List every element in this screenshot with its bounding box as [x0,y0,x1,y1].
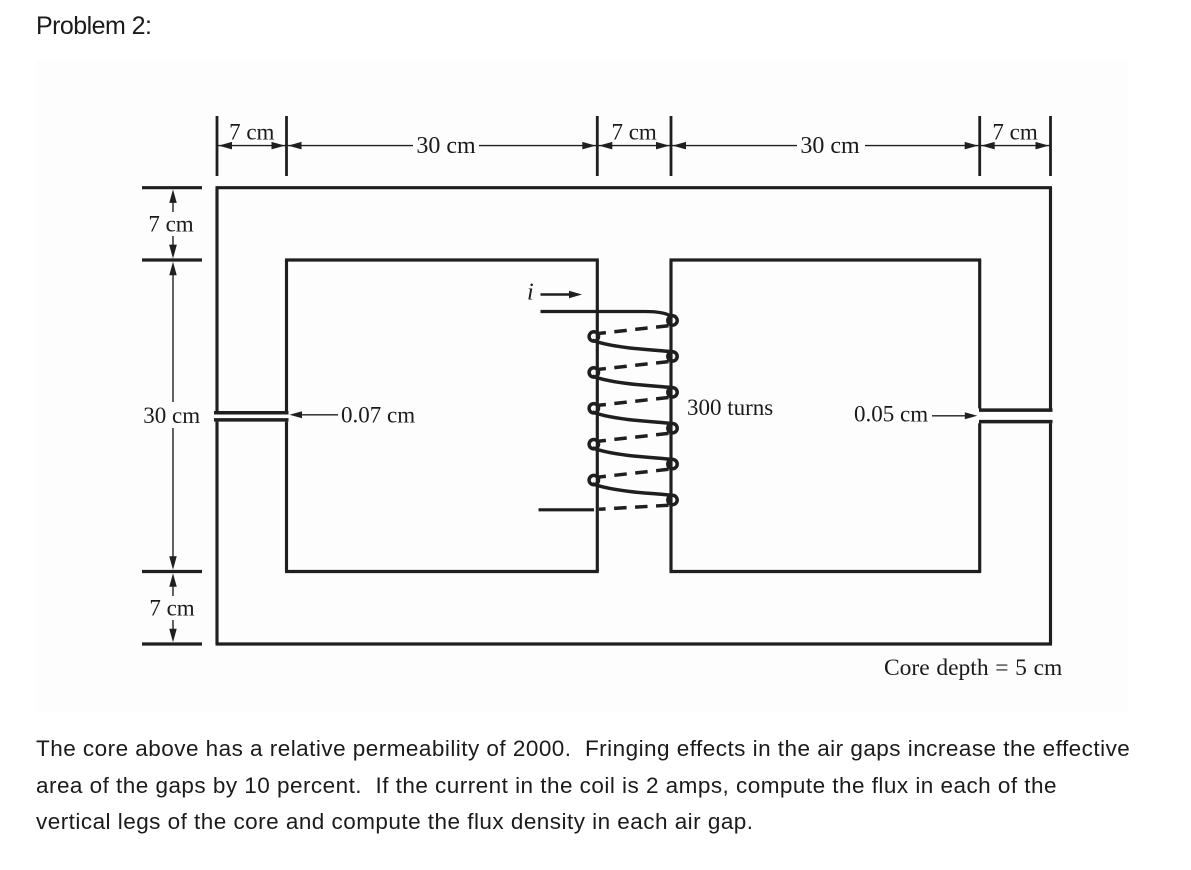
svg-text:300 turns: 300 turns [687,395,773,420]
svg-text:7 cm: 7 cm [992,120,1037,145]
svg-text:7 cm: 7 cm [229,120,274,145]
svg-text:30 cm: 30 cm [800,133,860,159]
svg-text:7 cm: 7 cm [148,212,193,237]
svg-text:7 cm: 7 cm [149,596,194,621]
svg-text:0.07 cm: 0.07 cm [341,403,415,428]
svg-text:7 cm: 7 cm [611,120,656,145]
svg-text:30 cm: 30 cm [143,403,200,428]
svg-text:Core depth = 5 cm: Core depth = 5 cm [884,655,1062,681]
svg-text:i: i [527,280,534,306]
svg-text:30 cm: 30 cm [416,133,476,159]
svg-text:0.05 cm: 0.05 cm [854,402,928,427]
